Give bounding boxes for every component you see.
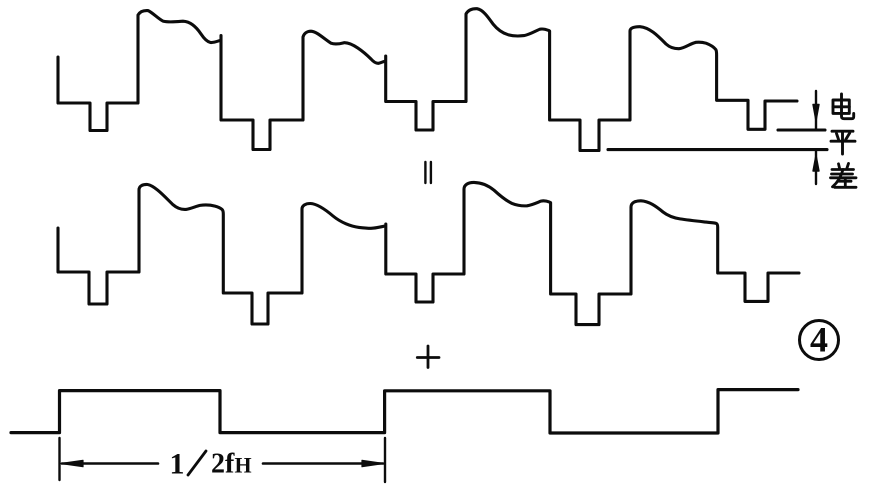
svg-text:1: 1 [170, 448, 185, 481]
node sync-tip level line (shifted lines, long reference) [608, 148, 827, 151]
svg-text:4: 4 [810, 320, 828, 360]
wire left extension line of dimension [58, 438, 60, 480]
wire bottom square wave (half line-rate switching signal) [11, 390, 798, 433]
node plus sign between traces [417, 346, 439, 368]
wire upper dimension arrow (level difference, down) [813, 91, 819, 129]
text 差 (cha) drawn strokes [831, 164, 857, 188]
wire lower dimension arrow (level difference, up) [813, 151, 819, 184]
svg-text:2f: 2f [211, 449, 235, 480]
wire drop after pulse 1 with overshoot tick [221, 31, 385, 149]
wire drop after pulse 2 with tick [386, 9, 797, 151]
wire middle waveform line B (composite video line, lower trace) [58, 184, 384, 324]
node equals sign (vertical pair) between traces [425, 162, 431, 183]
wire dimension arrow line right half [263, 460, 384, 466]
wire right extension line of dimension [384, 438, 386, 482]
text 电 (dian) drawn strokes [833, 94, 854, 119]
wire dimension arrow line left half [61, 460, 158, 466]
wire top waveform line A (composite video line, upper trace) [58, 11, 221, 131]
text 平 (ping) drawn strokes [831, 131, 855, 154]
node sync-tip level line (normal lines) [778, 128, 825, 131]
label slash of 1/2fH [188, 451, 206, 475]
label 1/2fH period annotation [170, 448, 252, 481]
svg-text:H: H [235, 453, 252, 478]
label circled figure number 4 [800, 321, 839, 360]
wire drop after middle pulse 2 with tick [386, 182, 799, 324]
